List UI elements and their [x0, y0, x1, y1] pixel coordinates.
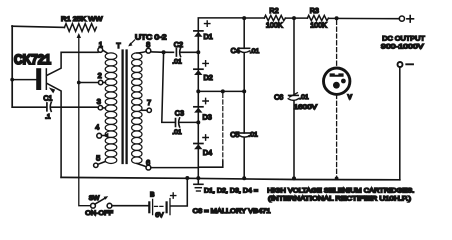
voltmeter dashed lead bottom — [336, 95, 338, 177]
svg-text:R2: R2 — [269, 6, 278, 15]
node dot C6 top — [292, 16, 296, 20]
terminal 5 — [94, 162, 106, 168]
wire terminal 8 to C2 — [151, 51, 174, 54]
label - output — [406, 63, 413, 65]
svg-text:1600V: 1600V — [294, 104, 318, 111]
capacitor C5 — [240, 133, 250, 137]
node dot V top — [335, 16, 339, 20]
node dot D2-D3 — [196, 89, 200, 93]
polarity mark + D1 — [205, 21, 210, 26]
battery B — [149, 199, 170, 215]
output + terminal — [399, 16, 404, 21]
wire dashed link bottom corner — [199, 161, 223, 167]
wire base — [12, 79, 36, 81]
terminal 2 — [98, 80, 105, 84]
svg-text:900-1000V: 900-1000V — [381, 43, 424, 50]
transformer T core — [121, 51, 123, 164]
diode D3 — [194, 107, 203, 113]
label CK721 — [14, 51, 51, 67]
node dot base — [10, 78, 14, 82]
svg-text:C5: C5 — [230, 130, 239, 139]
diode chain wire — [198, 18, 244, 179]
wire top rail to C6 — [293, 18, 295, 95]
bus bottom wire — [61, 177, 400, 179]
node dot C3 takeoff — [162, 50, 166, 54]
svg-text:100K: 100K — [266, 20, 283, 29]
node dot wiper to terminal 2 — [77, 81, 81, 85]
svg-text:T: T — [116, 43, 121, 50]
svg-text:D3: D3 — [203, 113, 212, 122]
node dot battery return — [185, 176, 189, 180]
R1 wiper arrowhead — [77, 33, 81, 38]
svg-text:.1: .1 — [45, 114, 51, 121]
svg-text:R3: R3 — [310, 6, 319, 15]
wire top-left horizontal — [12, 26, 64, 27]
svg-text:8: 8 — [146, 40, 150, 49]
emitter arrow — [49, 87, 55, 93]
svg-text:B: B — [150, 191, 155, 198]
svg-text:4: 4 — [95, 122, 99, 131]
svg-text:D4: D4 — [203, 148, 212, 157]
polarity mark + D2 — [203, 61, 208, 66]
terminal 7 — [142, 108, 151, 112]
svg-text:C6 = MALLORY VB471: C6 = MALLORY VB471 — [193, 208, 271, 215]
wire emitter — [47, 84, 61, 178]
node dot D1-D2 (C2) — [196, 50, 200, 54]
diode D1 — [194, 31, 203, 37]
node dot chain bottom — [196, 176, 200, 180]
capacitor C1 — [47, 102, 51, 111]
node dot C6 bottom — [292, 176, 296, 180]
svg-text:C1: C1 — [43, 96, 52, 103]
svg-text:3: 3 — [97, 97, 101, 106]
wire collector — [47, 52, 98, 75]
svg-text:.01: .01 — [172, 58, 182, 65]
svg-text:V: V — [348, 94, 353, 101]
polarity mark + D3 — [203, 98, 208, 103]
svg-text:(INTERNATIONAL RECTIFIER U10H: (INTERNATIONAL RECTIFIER U10H.P.) — [268, 195, 411, 202]
svg-text:C3: C3 — [175, 108, 184, 117]
svg-text:7: 7 — [147, 98, 151, 107]
wire D2-D3 junction to C4 — [198, 90, 244, 92]
svg-text:.01: .01 — [250, 48, 260, 55]
secondary coil — [132, 53, 142, 164]
wire R1 wiper down to switch — [79, 37, 91, 206]
capacitor C3 — [176, 118, 180, 127]
capacitor C2 — [176, 48, 180, 57]
svg-text:.01: .01 — [299, 94, 309, 101]
wire right vertical — [399, 67, 401, 180]
svg-text:5: 5 — [96, 154, 100, 163]
svg-text:C4: C4 — [231, 46, 240, 55]
wire C3 to diode chain — [179, 121, 198, 123]
svg-text:C2: C2 — [174, 40, 183, 49]
voltmeter dashed lead top — [336, 20, 338, 67]
label arrow — [130, 40, 135, 45]
switch SW — [91, 196, 112, 208]
wire junction to C5 — [243, 91, 245, 133]
node dot C4 bottom — [242, 89, 246, 93]
terminal 4 — [97, 133, 109, 138]
wire switch to battery — [112, 205, 148, 207]
svg-text:HIGH VOLTAGE SELENIUM CARTRID: HIGH VOLTAGE SELENIUM CARTRIDGES. — [267, 187, 414, 194]
resistor R1 — [64, 24, 96, 32]
svg-text:D2: D2 — [204, 73, 213, 82]
svg-text:.01: .01 — [172, 129, 182, 136]
terminal 1 — [98, 48, 107, 53]
svg-text:1: 1 — [99, 40, 103, 49]
transistor Q1 CK721 body — [36, 68, 47, 90]
primary coil — [105, 53, 117, 164]
terminal 6 — [137, 164, 151, 171]
terminal 8 — [137, 48, 151, 53]
top rail — [244, 17, 399, 20]
label battery + — [171, 193, 176, 198]
node dot C5 bottom — [242, 176, 246, 180]
diode D2 — [194, 69, 203, 75]
polarity mark + D4 — [203, 135, 208, 140]
wire left vertical — [11, 26, 13, 107]
ground — [194, 178, 203, 191]
wire C5 to bus — [243, 138, 245, 179]
svg-text:C6: C6 — [274, 92, 283, 101]
wire C3 vertical — [162, 52, 175, 122]
wire battery return — [171, 178, 188, 206]
svg-text:2: 2 — [98, 71, 102, 80]
diode D4 — [194, 144, 203, 150]
wire C2 to diode chain — [180, 51, 198, 53]
resistor R2 — [264, 15, 285, 20]
svg-text:.01: .01 — [248, 132, 258, 139]
wire C6 to bus — [293, 101, 295, 179]
capacitor C4 — [240, 48, 250, 52]
svg-text:D1, D2, D3, D4 =: D1, D2, D3, D4 = — [204, 187, 258, 194]
svg-text:R1 25K WW: R1 25K WW — [61, 16, 103, 23]
wire top rail to C4 — [243, 18, 245, 48]
svg-text:SW: SW — [89, 195, 100, 202]
svg-text:CK721: CK721 — [14, 51, 51, 67]
svg-text:DC OUTPUT: DC OUTPUT — [382, 36, 425, 43]
capacitor C6 — [288, 93, 298, 101]
node dot V bottom — [335, 177, 339, 181]
output - terminal — [398, 62, 403, 67]
svg-text:100K: 100K — [310, 20, 327, 29]
node dot C4 top — [242, 16, 246, 20]
node dot D3-D4 (C3) — [196, 120, 200, 124]
svg-text:ON-OFF: ON-OFF — [85, 210, 113, 217]
svg-text:D1: D1 — [204, 32, 213, 41]
resistor R3 — [307, 15, 328, 20]
dashed link junction to terminal-6 node — [222, 93, 224, 161]
svg-text:6: 6 — [146, 158, 150, 167]
svg-text:UTC 0-2: UTC 0-2 — [135, 35, 167, 42]
wire left to C1 — [12, 106, 46, 108]
node dot dashed link top — [221, 89, 225, 93]
wire wiper to terminal 2 — [79, 82, 99, 84]
label + output — [407, 16, 414, 23]
voltmeter V — [324, 68, 350, 94]
wire C4 to junction — [243, 53, 245, 92]
terminal 3 — [98, 106, 105, 110]
wire C1 to terminal 3 — [51, 106, 98, 108]
wire terminal 6 to chain — [151, 167, 199, 169]
svg-text:6V: 6V — [155, 212, 164, 219]
